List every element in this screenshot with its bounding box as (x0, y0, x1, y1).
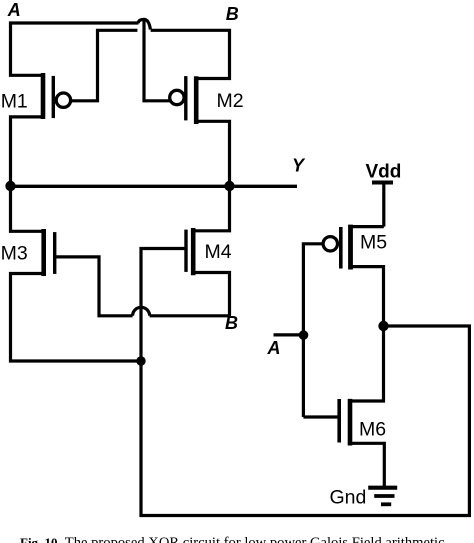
transistor M4 gate bar (184, 230, 187, 272)
transistor M5 gate bubble (323, 237, 337, 251)
ground symbol bar 2 (374, 494, 394, 498)
transistor M3 channel (41, 229, 46, 276)
transistor M6 channel (348, 399, 353, 446)
svg-text:A: A (267, 338, 281, 358)
junction dot Y rail left (5, 181, 15, 191)
svg-text:Y: Y (292, 156, 306, 176)
wire net B lower right + M4 source stub (150, 273, 230, 316)
wire hop: net A over net B (138, 19, 150, 29)
junction dot input A (299, 330, 309, 340)
wire input A (274, 333, 304, 336)
wire M4 gate + inverter output loop (141, 249, 469, 516)
wire net A vertical to M2 gate (144, 21, 171, 101)
wire M6 drain stub + vertical to output dot (350, 326, 384, 401)
wire M3 drain stub + vertical from Y rail (11, 186, 44, 231)
wire M2 source stub + right vertical to Y rail (196, 121, 229, 186)
wire Y rail (11, 185, 298, 188)
junction dot bottom rail (136, 356, 145, 365)
svg-text:M3: M3 (1, 243, 28, 265)
svg-text:Vdd: Vdd (366, 162, 402, 183)
transistor M2 gate bubble (170, 90, 184, 104)
transistor M1 gate bubble (56, 93, 70, 107)
wire M3 gate wire down to net B lower (55, 257, 133, 316)
svg-text:A: A (7, 0, 21, 20)
svg-text:Gnd: Gnd (330, 487, 367, 509)
wire M5 gate wire + vertical to M6 gate (303, 244, 322, 417)
wire M6 source stub + vertical to ground (350, 443, 384, 487)
svg-text:B: B (226, 4, 239, 24)
transistor M4 channel (191, 228, 196, 275)
wire M5 drain stub + vertical to output dot (351, 267, 384, 326)
power Vdd bar (372, 181, 393, 185)
wire M4 drain stub + vertical from Y rail (193, 186, 229, 231)
svg-text:M5: M5 (360, 231, 387, 253)
wire Vdd to M5 source (382, 184, 385, 227)
wire net A top + left vertical + M1 drain stub (11, 23, 139, 75)
transistor M1 channel (41, 73, 46, 119)
wire net B right segment + M2 drain stub (151, 30, 230, 78)
transistor M5 gate bar (339, 227, 343, 269)
svg-text:Fig. 10.The proposed XOR circu: Fig. 10.The proposed XOR circuit for low… (20, 535, 445, 543)
transistor M6 gate bar (337, 399, 341, 443)
svg-text:M6: M6 (359, 418, 386, 440)
junction dot inverter output (378, 321, 388, 331)
transistor M1 gate bar (52, 76, 55, 118)
wire hop: net B lower over inverter output (133, 307, 150, 316)
wire M5 source stub (351, 225, 384, 228)
wire M6 gate wire (303, 415, 339, 418)
svg-text:B: B (225, 313, 238, 333)
wire M3 source stub + vertical + bottom rail (11, 274, 142, 362)
transistor M5 channel (348, 225, 353, 270)
transistor M3 gate bar (53, 232, 56, 274)
wire M1 source stub + left vertical to Y rail (11, 117, 44, 186)
wire net B left segment + M1 gate wire (72, 30, 138, 101)
junction dot Y rail right (224, 181, 234, 191)
ground symbol bar 1 (368, 486, 397, 490)
transistor M2 gate bar (184, 76, 187, 120)
svg-text:M4: M4 (205, 241, 232, 263)
ground symbol bar 3 (381, 502, 391, 506)
svg-text:M2: M2 (217, 90, 244, 112)
svg-text:M1: M1 (1, 91, 28, 113)
transistor M2 channel (194, 76, 199, 124)
